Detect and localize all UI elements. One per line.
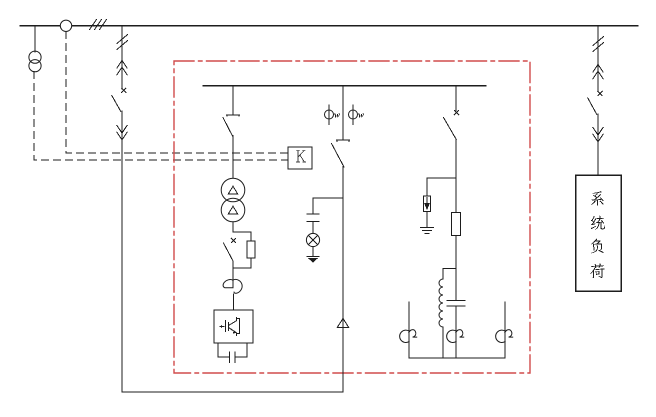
wire middle branch drop: [342, 86, 344, 140]
delta symbol upper winding: [228, 186, 237, 194]
switch QS3 blade: [444, 118, 457, 140]
wattmeter sensor left: [325, 105, 334, 125]
wattmeter sensor right: [349, 105, 358, 125]
main bus: [20, 25, 638, 27]
earth symbol arrester: [421, 227, 434, 233]
drawout plug marks (double slash) left feeder: [117, 35, 128, 50]
label 统: [591, 216, 605, 230]
breaker QF2 fixed contact T-bar: [337, 140, 350, 141]
left phase stub wire: [408, 302, 410, 358]
wire arrester branch: [427, 178, 456, 196]
wire PT primary: [34, 26, 36, 52]
system load box: [576, 175, 622, 291]
wire bottom return: [122, 391, 343, 393]
wire left feeder upper: [121, 26, 123, 89]
current transformer curl, left: [400, 330, 417, 343]
label w left: [334, 114, 340, 118]
wire capacitor lower: [455, 306, 457, 358]
label 荷: [590, 263, 605, 278]
controller box K: [288, 147, 312, 169]
drawout plug marks right feeder: [593, 37, 604, 52]
wire parallel resistor branch top: [233, 232, 251, 241]
valve triangle on middle branch: [337, 318, 348, 327]
wire converter dc right stub: [246, 343, 248, 357]
red dash-dot boundary of compensation device: [174, 61, 530, 373]
wire lamp branch horizontal: [313, 198, 343, 214]
wire to transformer: [232, 136, 234, 179]
wire PT secondary dashed: [34, 72, 288, 160]
converter (IGBT) box U1: [214, 310, 253, 343]
inner bus: [203, 85, 486, 87]
indicator lamp HL: [306, 233, 319, 246]
wire to converter box: [232, 294, 234, 310]
wire below resistor: [455, 236, 457, 301]
drawout chevrons down, right feeder: [593, 127, 603, 141]
wire right feeder upper: [597, 26, 599, 91]
node sensor on bus: [60, 20, 71, 31]
voltage transformer TV: [29, 51, 41, 72]
switch contact mark x: [231, 238, 235, 242]
drawout chevrons down, left feeder: [117, 125, 127, 139]
wire arrester to earth: [426, 212, 428, 227]
three-phase marks on bus: [90, 20, 107, 30]
wire middle branch lower: [342, 167, 344, 393]
disconnect switch QS1 blade: [112, 96, 121, 112]
disconnect switch QS4 blade: [588, 98, 597, 115]
IGBT symbol: [220, 318, 240, 336]
breaker QF1 blade: [223, 118, 233, 137]
drawout chevrons up, right feeder: [593, 64, 603, 78]
current transformer curl, middle: [447, 330, 464, 343]
wire left feeder lower: [121, 111, 123, 392]
disconnect switch QS4 contact mark: [598, 91, 602, 95]
wire reactor to bottom: [442, 327, 444, 358]
wire bottom collector: [409, 357, 505, 359]
wire transformer secondary: [232, 222, 234, 232]
breaker QF1 fixed contact T-bar: [227, 115, 240, 116]
wire reactor branch: [443, 269, 456, 279]
wire right branch drop: [455, 86, 457, 111]
label w right: [358, 114, 364, 118]
label K: [297, 150, 306, 162]
capacitor C3 plates: [447, 301, 465, 306]
resistor R1: [247, 241, 255, 258]
capacitor C2 plates: [307, 214, 319, 221]
current transformer curl, transformer branch: [223, 279, 242, 293]
label 系: [591, 191, 603, 206]
ground symbol lamp branch: [307, 256, 319, 262]
label 负: [591, 239, 604, 254]
delta symbol lower winding: [228, 206, 237, 214]
wire below switch: [232, 261, 234, 288]
wire converter dc left stub: [217, 343, 219, 357]
transformer T1 windings: [221, 178, 245, 222]
right phase stub wire: [504, 302, 506, 358]
breaker QF2 blade: [332, 144, 345, 168]
dc link capacitor C1: [218, 352, 247, 363]
reactor L1 coil: [439, 279, 443, 327]
surge arrester F1: [424, 196, 431, 212]
switch QS3 contact mark: [454, 111, 458, 115]
wire right feeder lower: [597, 114, 599, 175]
current transformer curl, right: [496, 330, 513, 343]
disconnect switch QS1 contact mark: [122, 88, 126, 92]
wire transformer branch drop: [232, 86, 234, 114]
drawout chevrons up, left feeder: [117, 60, 127, 74]
switch blade in transformer branch: [224, 243, 234, 261]
wire to lamp: [312, 222, 314, 234]
wire lamp to ground: [312, 247, 314, 256]
wire right branch middle: [455, 139, 457, 213]
wire parallel resistor branch bottom: [233, 258, 251, 268]
wire node secondary dashed: [66, 32, 288, 153]
resistor R2: [452, 213, 461, 236]
